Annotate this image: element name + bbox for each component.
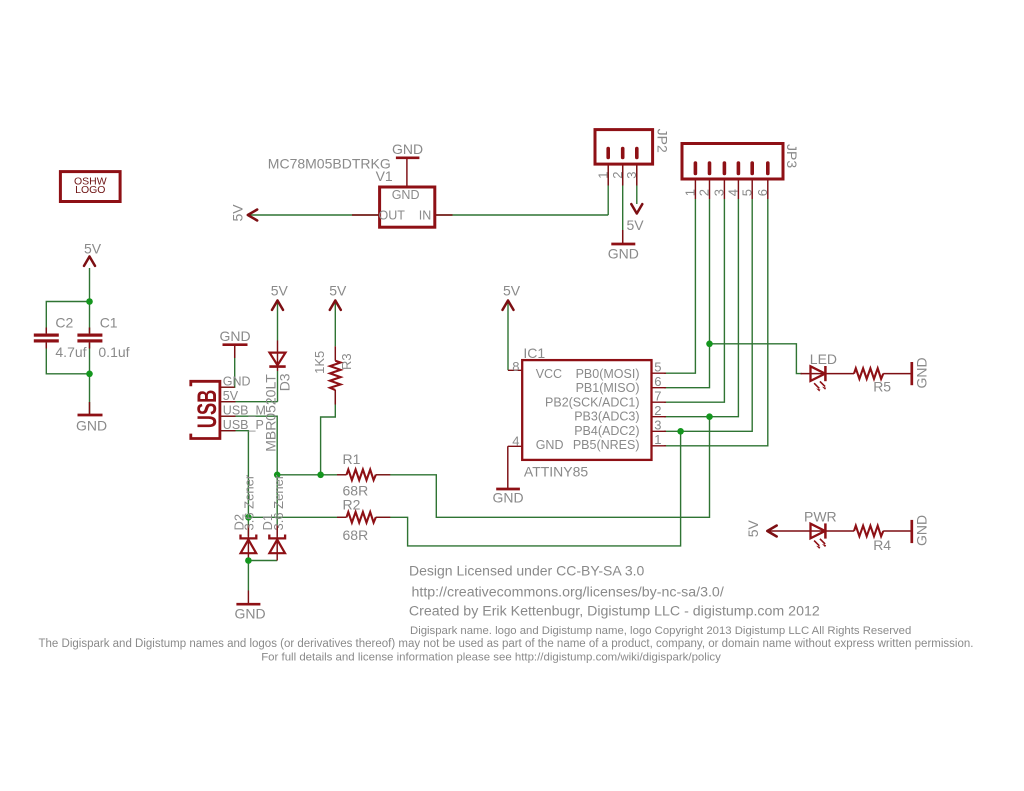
svg-text:5V: 5V xyxy=(223,389,239,403)
svg-text:1K5: 1K5 xyxy=(312,351,327,374)
svg-text:GND: GND xyxy=(219,328,250,344)
svg-text:LED: LED xyxy=(810,351,837,367)
svg-text:2: 2 xyxy=(610,172,625,179)
svg-text:PB4(ADC2): PB4(ADC2) xyxy=(574,424,639,438)
svg-text:R5: R5 xyxy=(873,379,891,395)
svg-text:GND: GND xyxy=(392,188,420,202)
svg-text:6: 6 xyxy=(755,189,770,196)
svg-text:OUT: OUT xyxy=(379,209,406,223)
svg-text:IN: IN xyxy=(419,208,432,222)
svg-text:7: 7 xyxy=(654,388,661,403)
svg-text:GND: GND xyxy=(536,438,564,452)
svg-text:68R: 68R xyxy=(343,527,369,543)
svg-text:2: 2 xyxy=(697,189,712,196)
svg-text:1: 1 xyxy=(595,172,610,179)
svg-text:PB5(NRES): PB5(NRES) xyxy=(573,438,640,452)
svg-text:5V: 5V xyxy=(271,283,289,299)
svg-text:The Digispark and Digistump na: The Digispark and Digistump names and lo… xyxy=(39,638,974,650)
svg-text:2: 2 xyxy=(654,403,661,418)
svg-text:GND: GND xyxy=(234,606,265,622)
svg-text:PWR: PWR xyxy=(804,509,837,525)
svg-text:3: 3 xyxy=(712,189,727,196)
svg-text:R2: R2 xyxy=(343,497,361,513)
svg-text:3: 3 xyxy=(654,417,661,432)
svg-text:3.6 Zener: 3.6 Zener xyxy=(271,474,286,530)
svg-text:5V: 5V xyxy=(230,204,246,222)
svg-text:5V: 5V xyxy=(503,283,521,299)
svg-text:ATTINY85: ATTINY85 xyxy=(524,464,589,480)
svg-text:0.1uf: 0.1uf xyxy=(98,344,129,360)
svg-text:USB: USB xyxy=(192,390,222,429)
svg-text:R4: R4 xyxy=(873,537,891,553)
svg-text:GND: GND xyxy=(913,515,929,546)
svg-text:Created by Erik Kettenbugr, Di: Created by Erik Kettenbugr, Digistump LL… xyxy=(409,603,820,619)
svg-text:R1: R1 xyxy=(343,451,361,467)
svg-text:8: 8 xyxy=(512,359,519,374)
svg-text:PB2(SCK/ADC1): PB2(SCK/ADC1) xyxy=(545,395,639,409)
svg-text:http://creativecommons.org/lic: http://creativecommons.org/licenses/by-n… xyxy=(412,585,724,601)
svg-text:LOGO: LOGO xyxy=(75,184,105,196)
svg-text:GND: GND xyxy=(392,141,423,157)
svg-text:1: 1 xyxy=(654,432,661,447)
svg-text:PB0(MOSI): PB0(MOSI) xyxy=(576,367,640,381)
svg-text:VCC: VCC xyxy=(536,367,562,381)
svg-text:6: 6 xyxy=(654,374,661,389)
svg-text:C2: C2 xyxy=(55,315,73,331)
svg-text:3.6 Zener: 3.6 Zener xyxy=(241,474,256,530)
svg-text:GND: GND xyxy=(492,490,523,506)
svg-text:GND: GND xyxy=(608,246,639,262)
svg-text:4: 4 xyxy=(726,189,741,196)
svg-text:V1: V1 xyxy=(376,168,393,184)
svg-text:Design Licensed under CC-BY-SA: Design Licensed under CC-BY-SA 3.0 xyxy=(409,563,645,579)
svg-text:4: 4 xyxy=(512,434,519,449)
svg-text:Digispark name. logo and Digis: Digispark name. logo and Digistump name,… xyxy=(410,625,911,637)
svg-text:GND: GND xyxy=(913,357,929,388)
svg-text:JP2: JP2 xyxy=(654,129,670,153)
svg-text:GND: GND xyxy=(76,418,107,434)
svg-text:C1: C1 xyxy=(100,315,118,331)
svg-text:5V: 5V xyxy=(626,217,644,233)
svg-text:JP3: JP3 xyxy=(784,144,800,168)
svg-text:IC1: IC1 xyxy=(523,345,545,361)
svg-text:PB3(ADC3): PB3(ADC3) xyxy=(574,410,639,424)
svg-text:PB1(MISO): PB1(MISO) xyxy=(576,381,640,395)
svg-text:5: 5 xyxy=(654,359,661,374)
svg-text:4.7uf: 4.7uf xyxy=(55,344,86,360)
svg-text:GND: GND xyxy=(223,375,251,389)
svg-text:USB_P: USB_P xyxy=(223,418,264,432)
svg-text:5V: 5V xyxy=(84,241,102,257)
svg-text:MC78M05BDTRKG: MC78M05BDTRKG xyxy=(268,156,391,172)
svg-text:D3: D3 xyxy=(276,373,292,391)
svg-text:USB_M: USB_M xyxy=(223,404,266,418)
svg-text:1: 1 xyxy=(683,189,698,196)
svg-text:3: 3 xyxy=(624,172,639,179)
svg-text:R3: R3 xyxy=(339,353,354,370)
svg-text:5V: 5V xyxy=(745,520,761,538)
svg-text:5: 5 xyxy=(739,189,754,196)
svg-text:For full details and license i: For full details and license information… xyxy=(261,651,721,663)
svg-text:5V: 5V xyxy=(329,283,347,299)
